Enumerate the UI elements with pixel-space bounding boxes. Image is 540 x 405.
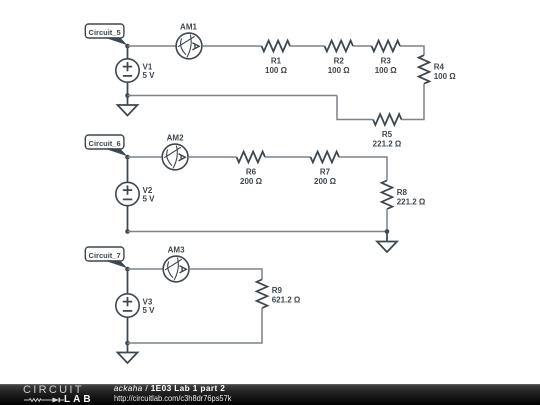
wire circuit 2 bottom return (128, 231, 388, 233)
label V3 value 5 V (143, 297, 156, 315)
svg-text:R7: R7 (320, 168, 331, 177)
label R2 100 ohm (328, 57, 351, 75)
wire V2 bottom stem to corner (127, 206, 129, 232)
wire node to AM3 (128, 268, 164, 270)
node A1 junction dot (125, 44, 130, 49)
wire node to AM1 (128, 45, 177, 47)
wire AM3 to corner down to R9 (189, 269, 262, 280)
svg-text:Circuit_6: Circuit_6 (89, 139, 121, 148)
voltage source V3 (116, 294, 139, 317)
label R6 200 ohm (240, 168, 263, 187)
svg-text:221.2 Ω: 221.2 Ω (397, 198, 426, 207)
wire V2 top stem (127, 157, 129, 182)
svg-text:R3: R3 (381, 57, 392, 66)
svg-text:221.2 Ω: 221.2 Ω (373, 140, 402, 149)
wire ground stem circuit 1 (127, 96, 129, 106)
wire R2 to R3 (353, 45, 372, 47)
svg-text:100 Ω: 100 Ω (328, 66, 351, 75)
wire ground stem circuit 2 (386, 232, 388, 242)
svg-text:100 Ω: 100 Ω (375, 66, 398, 75)
flag Circuit_5 (85, 24, 127, 45)
resistor R9 (257, 280, 268, 309)
wire V1 top stem (127, 46, 129, 59)
ground circuit 3 (118, 353, 138, 364)
svg-text:R2: R2 (334, 57, 345, 66)
ground circuit 2 (377, 242, 397, 253)
svg-text:AM2: AM2 (167, 134, 184, 143)
svg-text:R1: R1 (271, 57, 282, 66)
svg-text:V3: V3 (143, 297, 153, 306)
node bottom junction dot circuit 1 (125, 93, 130, 98)
svg-text:Circuit_5: Circuit_5 (89, 28, 121, 37)
svg-text:V1: V1 (143, 62, 153, 71)
svg-text:5 V: 5 V (143, 195, 156, 204)
label AM3 (168, 245, 185, 254)
wire AM1 to R1 (202, 45, 262, 47)
resistor R2 (325, 41, 354, 52)
svg-text:V2: V2 (143, 186, 153, 195)
wire V1 bottom stem (127, 82, 129, 95)
node junction dot circuit 3 (125, 267, 130, 272)
wire ground stem circuit 3 (127, 343, 129, 353)
label R9 621.2 ohm (272, 286, 301, 305)
ammeter AM2 (162, 144, 188, 170)
ammeter AM1 (176, 33, 202, 59)
wire R8 to bottom node (386, 209, 388, 232)
flag Circuit_6 (85, 135, 127, 156)
footer bar (0, 384, 540, 405)
label V2 value 5 V (143, 186, 156, 204)
resistor R4 (419, 55, 430, 83)
svg-text:5 V: 5 V (143, 71, 156, 80)
wire R6 to R7 (265, 156, 311, 158)
wire R5 to corner up (337, 96, 373, 120)
svg-text:AM3: AM3 (168, 245, 185, 254)
voltage source V2 (116, 182, 139, 205)
footer url line (114, 394, 231, 402)
ammeter AM3 (163, 256, 189, 282)
logo CIRCUIT wordmark (23, 385, 84, 396)
label R8 221.2 ohm (397, 188, 426, 207)
svg-text:R8: R8 (397, 188, 408, 197)
wire R1 to R2 (290, 45, 325, 47)
wire AM2 to R6 (188, 156, 237, 158)
logo wire glyph resistor diode (24, 396, 65, 404)
resistor R3 (372, 41, 401, 52)
wire V3 bottom stem (127, 317, 129, 343)
resistor R6 (237, 152, 266, 163)
resistor R5 (373, 114, 402, 125)
label R5 221.2 ohm (373, 130, 402, 149)
label V1 value 5 V (143, 62, 156, 80)
node V2 bottom junction dot (125, 229, 130, 234)
node junction dot circuit 2 (125, 155, 130, 160)
node bottom junction dot circuit 3 (125, 341, 130, 346)
label R7 200 ohm (314, 168, 337, 187)
svg-text:Circuit_7: Circuit_7 (89, 251, 121, 260)
svg-text:200 Ω: 200 Ω (314, 177, 337, 186)
label R1 100 ohm (265, 57, 288, 75)
svg-text:R6: R6 (246, 168, 257, 177)
footer title line (114, 384, 226, 392)
flag Circuit_7 (85, 247, 127, 268)
wire return to V1 bottom (128, 95, 338, 97)
resistor R1 (262, 41, 291, 52)
svg-text:200 Ω: 200 Ω (240, 177, 263, 186)
label AM2 (167, 134, 184, 143)
svg-text:100 Ω: 100 Ω (265, 66, 288, 75)
resistor R8 (382, 181, 393, 210)
svg-text:R4: R4 (434, 63, 445, 72)
svg-text:R5: R5 (382, 130, 393, 139)
label R3 100 ohm (375, 57, 398, 75)
resistor R7 (311, 152, 340, 163)
svg-text:AM1: AM1 (180, 23, 197, 32)
wire R4 down to corner to R5 (402, 84, 425, 120)
wire V3 top stem (127, 269, 129, 294)
wire R3 to corner and down to R4 (400, 46, 424, 55)
node bottom junction dot circuit 2 (385, 229, 390, 234)
wire R7 to corner down to R8 (339, 157, 387, 181)
label AM1 (180, 23, 197, 32)
logo LAB (64, 395, 94, 405)
svg-text:100 Ω: 100 Ω (434, 72, 457, 81)
svg-text:621.2 Ω: 621.2 Ω (272, 295, 301, 304)
svg-text:R9: R9 (272, 286, 283, 295)
wire node to AM2 (128, 156, 163, 158)
voltage source V1 (116, 59, 139, 82)
ground circuit 1 (118, 105, 138, 116)
svg-text:5 V: 5 V (143, 306, 156, 315)
wire R9 to bottom corner return to V3 (128, 308, 263, 343)
label R4 100 ohm (434, 63, 457, 82)
